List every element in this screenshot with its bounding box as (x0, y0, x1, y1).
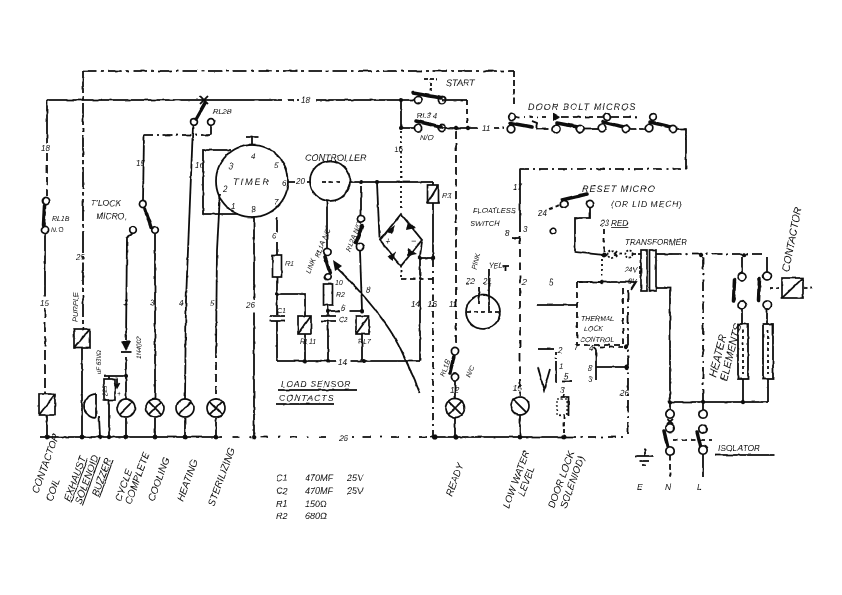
svg-text:225: 225 (103, 385, 109, 397)
svg-text:DOOR BOLT MICROS: DOOR BOLT MICROS (528, 102, 636, 112)
svg-text:R1: R1 (276, 499, 288, 509)
svg-text:18: 18 (41, 144, 50, 153)
svg-text:5: 5 (274, 161, 279, 170)
svg-text:R1: R1 (285, 261, 294, 268)
svg-text:RL2B: RL2B (213, 107, 232, 116)
svg-text:16: 16 (195, 161, 204, 170)
svg-text:4: 4 (251, 152, 256, 161)
svg-text:24V: 24V (624, 267, 639, 274)
svg-text:25V: 25V (346, 473, 364, 483)
svg-text:150Ω: 150Ω (305, 499, 327, 509)
svg-text:20: 20 (295, 177, 305, 186)
svg-text:2: 2 (557, 346, 563, 355)
svg-text:26: 26 (245, 301, 255, 310)
svg-text:22: 22 (465, 277, 475, 286)
svg-text:2: 2 (521, 278, 527, 287)
svg-text:15: 15 (513, 384, 522, 393)
svg-text:+: + (117, 391, 121, 398)
svg-text:5: 5 (564, 372, 569, 381)
svg-text:6: 6 (272, 232, 277, 241)
svg-text:14: 14 (411, 300, 420, 309)
svg-text:24: 24 (537, 209, 547, 218)
svg-text:LOCK: LOCK (584, 326, 603, 333)
svg-text:T'LOCK: T'LOCK (91, 198, 121, 208)
svg-text:5: 5 (549, 278, 554, 287)
svg-text:N.O: N.O (51, 227, 64, 234)
svg-text:10: 10 (335, 280, 343, 287)
svg-text:1: 1 (231, 202, 235, 211)
svg-text:uF 63VΩ: uF 63VΩ (97, 350, 103, 374)
svg-text:PURPLE: PURPLE (71, 291, 80, 322)
svg-text:3: 3 (150, 299, 155, 308)
svg-text:26: 26 (338, 434, 348, 443)
svg-text:ISOLATOR: ISOLATOR (718, 443, 760, 453)
svg-text:CONTACTS: CONTACTS (279, 393, 335, 403)
svg-text:N/O: N/O (420, 133, 434, 142)
svg-text:1: 1 (559, 362, 563, 371)
svg-text:C2: C2 (339, 317, 348, 324)
svg-text:680Ω: 680Ω (305, 511, 327, 521)
svg-text:6: 6 (341, 304, 346, 313)
svg-text:(OR LID MECH): (OR LID MECH) (611, 199, 683, 209)
svg-text:R2: R2 (276, 511, 288, 521)
svg-text:23 RED: 23 RED (599, 219, 628, 228)
svg-text:R2: R2 (336, 292, 345, 299)
svg-text:7: 7 (274, 198, 279, 207)
svg-text:RESET MICRO: RESET MICRO (582, 184, 656, 194)
svg-text:2: 2 (222, 185, 228, 194)
svg-text:2: 2 (123, 298, 129, 307)
svg-text:CONTROL: CONTROL (580, 337, 614, 344)
svg-text:1N4002: 1N4002 (136, 336, 143, 359)
svg-text:6: 6 (282, 179, 287, 188)
svg-text:16: 16 (394, 145, 403, 154)
svg-text:3: 3 (588, 375, 593, 384)
svg-text:4: 4 (179, 299, 184, 308)
svg-text:C1: C1 (276, 473, 288, 483)
svg-text:4: 4 (589, 344, 594, 353)
svg-text:16: 16 (428, 300, 437, 309)
svg-text:RL7: RL7 (358, 339, 372, 346)
svg-text:21: 21 (482, 277, 492, 286)
svg-text:3: 3 (229, 162, 234, 171)
svg-text:RL11: RL11 (300, 339, 316, 346)
svg-text:RL1B: RL1B (52, 216, 70, 223)
svg-text:5: 5 (210, 299, 215, 308)
svg-text:−: − (411, 236, 416, 246)
svg-text:THERMAL: THERMAL (581, 316, 615, 323)
svg-text:8: 8 (505, 229, 510, 238)
svg-text:START: START (446, 78, 476, 88)
svg-text:8: 8 (588, 364, 593, 373)
svg-text:17: 17 (513, 183, 522, 192)
svg-text:8: 8 (366, 286, 371, 295)
svg-text:TRANSFORMER: TRANSFORMER (625, 238, 687, 247)
svg-text:N: N (665, 482, 672, 492)
svg-text:7: 7 (574, 343, 579, 352)
svg-text:18: 18 (301, 96, 310, 105)
svg-text:3: 3 (560, 386, 565, 395)
svg-text:CONTROLLER: CONTROLLER (305, 153, 367, 163)
svg-text:8: 8 (251, 205, 256, 214)
svg-text:25V: 25V (346, 486, 364, 496)
svg-text:26: 26 (619, 389, 629, 398)
svg-text:L: L (697, 482, 702, 492)
svg-text:LOAD SENSOR: LOAD SENSOR (281, 379, 351, 389)
svg-text:470MF: 470MF (305, 486, 334, 496)
svg-text:11: 11 (482, 124, 490, 133)
svg-text:15: 15 (136, 159, 145, 168)
svg-text:YEL.: YEL. (489, 263, 504, 270)
svg-text:+: + (385, 236, 390, 246)
svg-text:15: 15 (40, 299, 49, 308)
svg-text:25: 25 (75, 253, 85, 262)
svg-text:14: 14 (338, 358, 347, 367)
svg-text:E: E (637, 482, 643, 492)
svg-text:RL3 4: RL3 4 (417, 111, 437, 120)
svg-text:FLOATLESS: FLOATLESS (473, 206, 516, 215)
svg-text:MICRO,: MICRO, (96, 211, 127, 221)
svg-text:R3: R3 (442, 191, 452, 200)
svg-text:TIMER: TIMER (233, 177, 271, 187)
svg-text:3: 3 (523, 225, 528, 234)
svg-text:C2: C2 (276, 486, 288, 496)
svg-text:SWITCH: SWITCH (470, 219, 500, 228)
svg-text:C1: C1 (277, 308, 286, 315)
svg-text:470MF: 470MF (305, 473, 334, 483)
